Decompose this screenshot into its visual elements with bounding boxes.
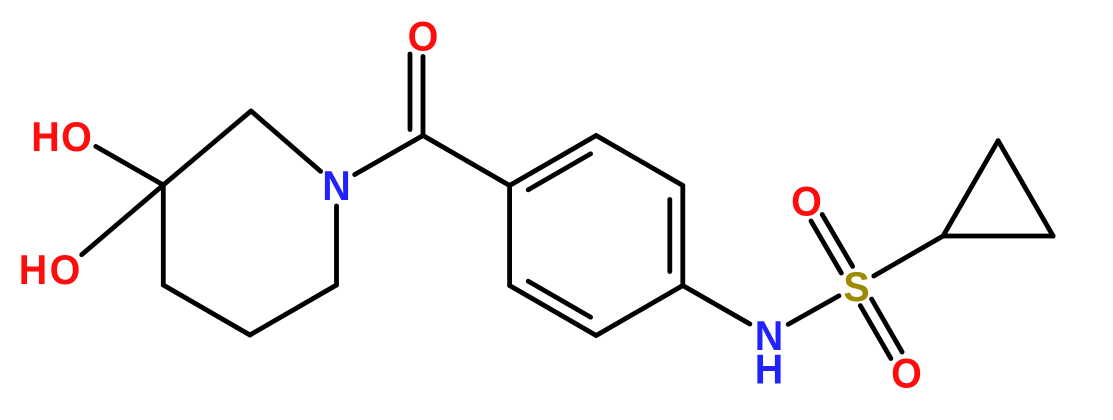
svg-text:H: H [19,246,48,293]
svg-text:H: H [31,113,60,160]
svg-text:S: S [843,263,869,310]
svg-text:H: H [755,345,784,392]
svg-text:O: O [891,349,922,396]
svg-text:N: N [322,162,351,209]
svg-text:O: O [791,177,822,224]
svg-text:O: O [408,12,439,59]
svg-text:O: O [50,246,81,293]
svg-text:O: O [61,113,92,160]
